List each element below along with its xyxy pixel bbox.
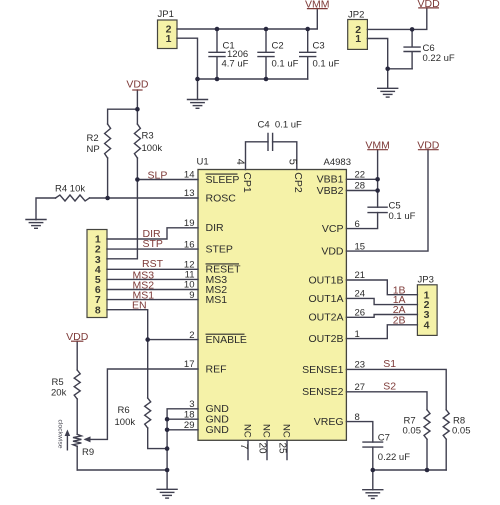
svg-text:SLP: SLP (148, 170, 168, 182)
svg-text:A4983: A4983 (324, 157, 351, 168)
svg-text:0.22 uF: 0.22 uF (378, 452, 410, 463)
svg-text:100k: 100k (115, 417, 136, 428)
svg-text:8: 8 (355, 412, 360, 423)
svg-text:0.1 uF: 0.1 uF (389, 211, 416, 222)
svg-text:OUT1B: OUT1B (308, 274, 343, 286)
svg-text:R5: R5 (52, 377, 64, 388)
svg-text:R6: R6 (118, 405, 130, 416)
svg-text:15: 15 (355, 241, 366, 252)
svg-text:JP2: JP2 (348, 10, 364, 21)
svg-text:JP1: JP1 (158, 9, 174, 20)
svg-text:4: 4 (234, 159, 246, 165)
svg-text:CP1: CP1 (241, 172, 253, 193)
svg-text:24: 24 (355, 289, 366, 300)
svg-text:3: 3 (189, 399, 194, 410)
svg-text:SENSE1: SENSE1 (302, 364, 344, 376)
svg-text:27: 27 (355, 382, 366, 393)
svg-text:VDD: VDD (66, 331, 89, 343)
svg-text:4: 4 (424, 319, 430, 331)
svg-text:9: 9 (189, 290, 194, 301)
svg-text:VDD: VDD (321, 246, 344, 258)
svg-text:MS1: MS1 (206, 294, 228, 306)
svg-text:OUT2A: OUT2A (308, 312, 343, 324)
svg-text:U1: U1 (197, 157, 209, 168)
svg-text:16: 16 (184, 239, 195, 250)
svg-text:2: 2 (189, 330, 194, 341)
svg-text:18: 18 (184, 409, 195, 420)
svg-text:8: 8 (95, 304, 101, 316)
svg-text:25: 25 (277, 443, 288, 455)
svg-text:14: 14 (184, 170, 195, 181)
svg-text:2B: 2B (393, 314, 406, 326)
svg-text:100k: 100k (142, 143, 163, 154)
svg-text:S2: S2 (383, 380, 396, 392)
svg-text:ROSC: ROSC (206, 192, 237, 204)
svg-text:NC: NC (260, 424, 271, 438)
svg-text:S1: S1 (383, 358, 396, 370)
svg-text:0.22 uF: 0.22 uF (423, 53, 455, 64)
svg-text:21: 21 (355, 270, 366, 281)
svg-text:VDD: VDD (417, 140, 440, 152)
svg-text:C4 0.1 uF: C4 0.1 uF (258, 119, 303, 130)
svg-text:13: 13 (184, 188, 195, 199)
svg-text:OUT1A: OUT1A (308, 293, 343, 305)
svg-text:20k: 20k (51, 387, 67, 398)
svg-text:CP2: CP2 (292, 172, 304, 193)
svg-text:1: 1 (355, 329, 360, 340)
svg-text:VMM: VMM (365, 140, 390, 152)
svg-text:22: 22 (355, 170, 366, 181)
svg-text:REF: REF (206, 363, 227, 375)
svg-text:VDD: VDD (418, 0, 441, 10)
svg-text:7: 7 (238, 444, 249, 450)
svg-text:1: 1 (355, 33, 361, 45)
svg-text:VCP: VCP (322, 223, 344, 235)
svg-text:C3: C3 (313, 40, 325, 51)
svg-text:26: 26 (355, 308, 366, 319)
svg-text:1: 1 (166, 33, 172, 45)
svg-text:5: 5 (286, 159, 298, 165)
svg-text:R4 10k: R4 10k (55, 184, 85, 195)
svg-text:RST: RST (142, 258, 164, 270)
svg-text:VMM: VMM (305, 0, 330, 11)
svg-text:C2: C2 (272, 40, 284, 51)
svg-text:C7: C7 (378, 432, 390, 443)
svg-text:OUT2B: OUT2B (308, 333, 343, 345)
svg-text:0.1 uF: 0.1 uF (313, 59, 340, 70)
svg-text:20: 20 (257, 443, 268, 455)
svg-text:NC: NC (280, 424, 291, 438)
svg-text:GND: GND (206, 424, 230, 436)
svg-text:NP: NP (87, 144, 100, 155)
svg-text:JP3: JP3 (418, 275, 434, 286)
svg-text:R3: R3 (142, 130, 154, 141)
svg-text:clockwise: clockwise (57, 420, 64, 449)
svg-text:EN: EN (132, 300, 147, 312)
svg-text:4.7 uF: 4.7 uF (222, 59, 249, 70)
svg-text:28: 28 (355, 181, 366, 192)
svg-text:R9: R9 (82, 447, 94, 458)
svg-text:23: 23 (355, 360, 366, 371)
svg-text:SENSE2: SENSE2 (302, 386, 344, 398)
svg-text:19: 19 (184, 218, 195, 229)
svg-text:0.05: 0.05 (452, 426, 471, 437)
svg-text:ENABLE: ENABLE (206, 334, 247, 346)
svg-text:0.05: 0.05 (403, 426, 422, 437)
svg-text:17: 17 (184, 359, 195, 370)
svg-text:0.1 uF: 0.1 uF (272, 59, 299, 70)
svg-text:VBB1: VBB1 (317, 174, 344, 186)
svg-text:DIR: DIR (206, 222, 225, 234)
svg-text:VBB2: VBB2 (317, 185, 344, 197)
svg-text:VREG: VREG (314, 416, 344, 428)
svg-text:STEP: STEP (206, 244, 233, 256)
svg-text:29: 29 (184, 420, 195, 431)
svg-text:NC: NC (241, 424, 252, 438)
svg-text:SLEEP: SLEEP (206, 174, 240, 186)
svg-text:6: 6 (355, 219, 360, 230)
svg-text:R2: R2 (87, 133, 99, 144)
svg-text:VDD: VDD (126, 79, 149, 91)
svg-text:STP: STP (143, 238, 163, 250)
svg-text:C5: C5 (389, 201, 401, 212)
